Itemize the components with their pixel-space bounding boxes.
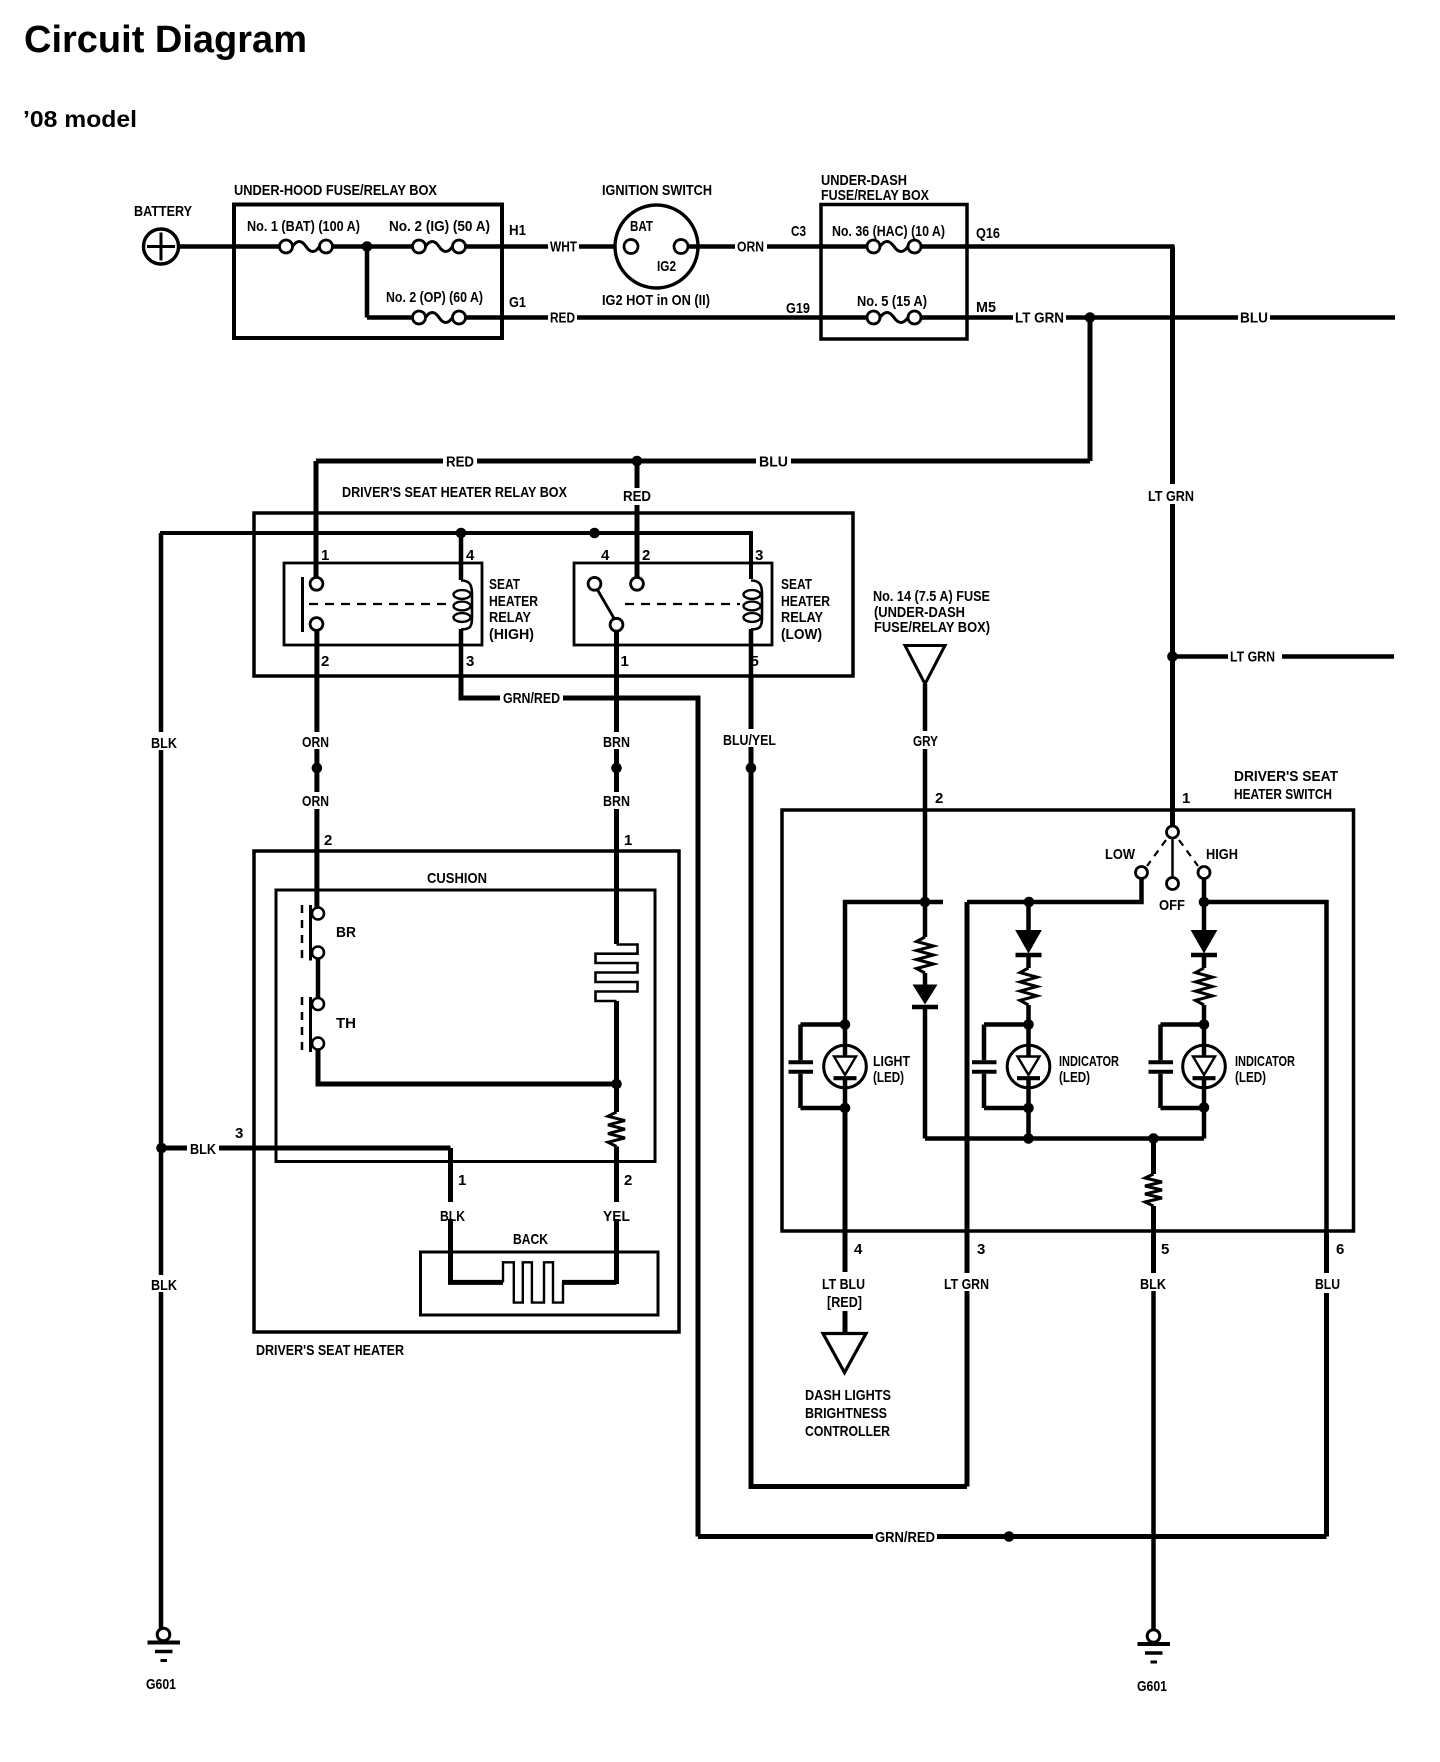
- wire ORN from relay HIGH pin 2: [302, 631, 332, 908]
- wire light rail: [845, 902, 943, 1025]
- svg-text:(HIGH): (HIGH): [489, 626, 534, 643]
- terminal label Q16: [976, 225, 1000, 242]
- svg-text:BRN: BRN: [603, 734, 630, 751]
- fuse No.5 (15 A): [821, 293, 967, 324]
- svg-text:LT BLU: LT BLU: [822, 1276, 865, 1293]
- svg-text:’08 model: ’08 model: [23, 106, 137, 132]
- ground G601 right: [1137, 1630, 1170, 1695]
- wire LT GRN horizontal branch: [1177, 649, 1394, 666]
- svg-text:INDICATOR: INDICATOR: [1235, 1053, 1295, 1070]
- svg-text:G601: G601: [146, 1676, 176, 1693]
- svg-text:2: 2: [642, 547, 650, 564]
- terminal label H1: [509, 222, 526, 239]
- svg-text:BLK: BLK: [190, 1141, 216, 1158]
- svg-text:2: 2: [321, 653, 329, 670]
- LED light circuit: [789, 1025, 911, 1109]
- wire IG2 ORN to under-dash C3: [688, 239, 821, 256]
- svg-text:OFF: OFF: [1159, 897, 1185, 914]
- wire BLK pin 3 to back heater: [162, 1125, 504, 1282]
- svg-text:1: 1: [1182, 790, 1190, 807]
- svg-text:1: 1: [321, 547, 329, 564]
- svg-text:G1: G1: [509, 294, 526, 311]
- fuse No.2 (OP) (60 A): [386, 289, 483, 324]
- connector node BRN: [611, 763, 622, 774]
- wire RED G1 to under-dash G19: [550, 292, 821, 327]
- svg-text:No. 14 (7.5 A) FUSE: No. 14 (7.5 A) FUSE: [873, 588, 990, 605]
- resistor indicator1: [1020, 968, 1037, 1025]
- svg-text:M5: M5: [976, 299, 996, 316]
- svg-text:DASH LIGHTS: DASH LIGHTS: [805, 1387, 891, 1404]
- off-page arrow dash lights brightness controller: [805, 1334, 891, 1441]
- svg-text:CUSHION: CUSHION: [427, 870, 487, 887]
- junction node ind1 top: [1023, 1019, 1034, 1030]
- svg-text:GRN/RED: GRN/RED: [875, 1529, 935, 1546]
- wire RED / BLU feed to relay box: [316, 454, 1090, 471]
- junction node under-hood: [362, 241, 373, 252]
- wire GRY to switch pin 2: [913, 684, 943, 902]
- junction node indicator1 top: [1024, 897, 1035, 908]
- svg-text:LT GRN: LT GRN: [1015, 310, 1064, 327]
- svg-text:HIGH: HIGH: [1206, 846, 1238, 863]
- svg-text:(LOW): (LOW): [781, 626, 822, 643]
- svg-text:No. 2 (OP) (60 A): No. 2 (OP) (60 A): [386, 289, 483, 306]
- junction node ind2 bottom: [1199, 1102, 1210, 1113]
- wire GRN/RED from relay HIGH pin 3: [461, 676, 698, 1537]
- svg-text:3: 3: [755, 547, 763, 564]
- wire BRN from relay LOW pin 1: [603, 631, 632, 944]
- branch wire to fuse No.2 (OP): [367, 247, 413, 318]
- resistor to pin 5: [1145, 1139, 1162, 1274]
- driver's seat heater relay box: [254, 484, 853, 676]
- svg-text:BACK: BACK: [513, 1231, 548, 1248]
- driver's seat heater switch box: [782, 768, 1354, 1231]
- terminal label C3: [791, 223, 806, 240]
- relay seat heater relay HIGH: [284, 533, 538, 676]
- LED indicator1 circuit: [972, 1025, 1119, 1139]
- junction node LT GRN branch: [1167, 651, 1178, 662]
- svg-text:DRIVER'S SEAT HEATER: DRIVER'S SEAT HEATER: [256, 1342, 404, 1359]
- junction node ind2 top: [1199, 1019, 1210, 1030]
- svg-text:BRN: BRN: [603, 793, 630, 810]
- fuse No.2 (IG) (50 A): [389, 218, 490, 253]
- battery BATTERY: [134, 203, 192, 264]
- svg-text:4: 4: [854, 1241, 863, 1258]
- svg-text:CONTROLLER: CONTROLLER: [805, 1423, 890, 1440]
- svg-text:BLU: BLU: [759, 454, 788, 471]
- svg-text:TH: TH: [336, 1015, 356, 1032]
- svg-text:[RED]: [RED]: [827, 1294, 862, 1311]
- junction node GRY light: [920, 897, 931, 908]
- heater element back: [503, 1262, 617, 1302]
- junction node cushion: [611, 1079, 622, 1090]
- svg-text:RED: RED: [550, 310, 575, 327]
- under-dash fuse/relay box: [821, 172, 967, 339]
- svg-text:IGNITION SWITCH: IGNITION SWITCH: [602, 182, 712, 199]
- junction node BLK pin3 branch: [156, 1143, 167, 1154]
- svg-text:ORN: ORN: [302, 793, 329, 810]
- wire HIGH contact rail: [1204, 879, 1327, 1232]
- svg-text:BLK: BLK: [1140, 1276, 1166, 1293]
- svg-text:BLU: BLU: [1240, 310, 1268, 327]
- svg-text:5: 5: [751, 653, 759, 670]
- svg-text:4: 4: [466, 547, 475, 564]
- svg-text:Q16: Q16: [976, 225, 1000, 242]
- diode dimmer: [912, 985, 938, 1139]
- svg-text:DRIVER'S SEAT: DRIVER'S SEAT: [1234, 768, 1338, 785]
- svg-text:BAT: BAT: [630, 218, 653, 235]
- svg-text:(LED): (LED): [1235, 1069, 1266, 1086]
- svg-text:Circuit Diagram: Circuit Diagram: [24, 19, 307, 61]
- svg-text:BLU/YEL: BLU/YEL: [723, 732, 776, 749]
- svg-text:RELAY: RELAY: [781, 609, 823, 626]
- svg-text:3: 3: [235, 1125, 243, 1142]
- svg-text:GRN/RED: GRN/RED: [503, 690, 560, 707]
- connector TH thermal contacts: [302, 959, 356, 1053]
- back heater box: [421, 1231, 659, 1315]
- svg-text:No. 2 (IG) (50 A): No. 2 (IG) (50 A): [389, 218, 490, 235]
- junction node rail indicator1: [1023, 1133, 1034, 1144]
- wire pin 3 LT GRN down: [941, 902, 992, 1487]
- wire LOW contact rail: [967, 879, 1142, 903]
- junction node GRN/RED: [1004, 1531, 1015, 1542]
- wire LT BLU [RED] pin 4 to controller: [822, 1108, 865, 1334]
- svg-text:No. 1 (BAT) (100 A): No. 1 (BAT) (100 A): [247, 218, 360, 235]
- svg-text:G601: G601: [1137, 1678, 1167, 1695]
- svg-text:No. 5 (15 A): No. 5 (15 A): [857, 293, 927, 310]
- svg-text:H1: H1: [509, 222, 526, 239]
- svg-text:RED: RED: [623, 488, 651, 505]
- wire BLK ground line left: [151, 533, 177, 1628]
- junction node rail pin4 LOW: [589, 528, 600, 539]
- svg-text:SEAT: SEAT: [781, 576, 812, 593]
- subtitle 08 model: [23, 106, 137, 132]
- switch contacts LOW OFF HIGH: [1105, 826, 1238, 914]
- svg-text:FUSE/RELAY BOX): FUSE/RELAY BOX): [874, 619, 990, 636]
- resistor GRY dimmer: [917, 902, 934, 985]
- svg-text:FUSE/RELAY BOX: FUSE/RELAY BOX: [821, 187, 929, 204]
- svg-text:4: 4: [601, 547, 610, 564]
- ground G601 left: [146, 1628, 180, 1693]
- diode indicator1: [1016, 902, 1042, 968]
- fuse No.14 (7.5 A) off-page triangle: [873, 588, 990, 684]
- svg-text:UNDER-HOOD FUSE/RELAY BOX: UNDER-HOOD FUSE/RELAY BOX: [234, 182, 437, 199]
- wire M5 LT GRN / BLU to right: [967, 310, 1395, 327]
- cushion box: [276, 870, 655, 1162]
- relay seat heater relay LOW: [574, 547, 830, 676]
- svg-text:IG2: IG2: [657, 258, 676, 275]
- ignition switch: [602, 182, 712, 288]
- svg-text:BATTERY: BATTERY: [134, 203, 192, 220]
- wire TH to thermostat junction: [318, 1050, 614, 1085]
- svg-text:LT GRN: LT GRN: [1148, 488, 1194, 505]
- fuse No.1 (BAT) (100 A): [247, 218, 360, 253]
- junction node RED branch: [632, 456, 643, 467]
- svg-text:BLU: BLU: [1315, 1276, 1340, 1293]
- wire fuse1 to fuse2: [333, 244, 413, 249]
- svg-text:LT GRN: LT GRN: [1230, 649, 1275, 666]
- svg-text:LIGHT: LIGHT: [873, 1053, 910, 1070]
- connector BR thermal contacts: [302, 905, 356, 961]
- connector node BLU/YEL: [746, 763, 757, 774]
- resistor indicator2: [1196, 968, 1213, 1025]
- thermostat resistor cushion: [608, 1084, 625, 1147]
- svg-text:5: 5: [1161, 1241, 1169, 1258]
- svg-text:LOW: LOW: [1105, 846, 1136, 863]
- wire BLU branch down to relay feed: [1088, 318, 1093, 462]
- svg-text:3: 3: [977, 1241, 985, 1258]
- svg-text:BLK: BLK: [151, 735, 177, 752]
- junction node rail resistor5: [1148, 1133, 1159, 1144]
- svg-text:IG2 HOT in ON (II): IG2 HOT in ON (II): [602, 292, 710, 309]
- wire GRN/RED bottom to pin 6: [698, 1231, 1344, 1546]
- svg-text:DRIVER'S SEAT HEATER RELAY BOX: DRIVER'S SEAT HEATER RELAY BOX: [342, 484, 567, 501]
- svg-text:2: 2: [324, 832, 332, 849]
- svg-text:1: 1: [621, 653, 629, 670]
- svg-text:BR: BR: [336, 924, 356, 941]
- wire BLU/YEL from relay LOW pin 5: [723, 676, 967, 1487]
- svg-text:2: 2: [935, 790, 943, 807]
- wire BLK pin 5 to ground: [1137, 1241, 1169, 1629]
- terminal label G19: [786, 300, 810, 317]
- svg-text:ORN: ORN: [737, 239, 764, 256]
- svg-text:GRY: GRY: [913, 733, 938, 750]
- svg-text:HEATER: HEATER: [781, 593, 830, 610]
- under-hood fuse/relay box: [234, 182, 502, 338]
- svg-text:(LED): (LED): [1059, 1069, 1090, 1086]
- svg-text:INDICATOR: INDICATOR: [1059, 1053, 1119, 1070]
- wire Q16 to right vertical: [967, 244, 1175, 249]
- svg-text:BRIGHTNESS: BRIGHTNESS: [805, 1405, 887, 1422]
- wire down to relay HIGH pin 1: [314, 461, 319, 578]
- LED indicator2 circuit: [1149, 1025, 1296, 1139]
- fuse No.36 (HAC) (10 A): [821, 223, 967, 253]
- svg-text:HEATER SWITCH: HEATER SWITCH: [1234, 786, 1332, 803]
- junction node light top: [840, 1019, 851, 1030]
- svg-text:No. 36 (HAC) (10 A): No. 36 (HAC) (10 A): [832, 223, 945, 240]
- svg-text:(LED): (LED): [873, 1069, 904, 1086]
- terminal label G1: [509, 294, 526, 311]
- svg-text:3: 3: [466, 653, 474, 670]
- heater element cushion: [596, 945, 638, 1085]
- svg-text:BLK: BLK: [151, 1277, 177, 1294]
- svg-text:SEAT: SEAT: [489, 576, 520, 593]
- svg-text:2: 2: [624, 1172, 632, 1189]
- wire bottom rail of switch: [925, 1136, 1204, 1141]
- wire battery to under-hood box: [179, 244, 281, 249]
- wire fuse OP to G1: [466, 315, 549, 320]
- junction node rail pin4 HIGH: [456, 528, 467, 539]
- svg-text:C3: C3: [791, 223, 806, 240]
- junction node HIGH rail: [1199, 897, 1210, 908]
- wire RED down to relay LOW pin 2: [620, 461, 654, 578]
- driver's seat heater box: [254, 851, 679, 1359]
- svg-text:1: 1: [458, 1172, 466, 1189]
- svg-text:RELAY: RELAY: [489, 609, 531, 626]
- svg-text:RED: RED: [446, 454, 474, 471]
- wire LT GRN vertical to heater switch pin 1: [1145, 247, 1197, 827]
- svg-text:1: 1: [624, 832, 632, 849]
- svg-text:HEATER: HEATER: [489, 593, 538, 610]
- svg-text:6: 6: [1336, 1241, 1344, 1258]
- wire fuse2 to H1: [466, 244, 549, 249]
- title: [24, 19, 307, 61]
- junction node ind1 bottom: [1023, 1103, 1034, 1114]
- wire ground rail to relay coils: [160, 533, 751, 579]
- svg-text:LT GRN: LT GRN: [944, 1276, 989, 1293]
- wire YEL to back heater: [603, 1147, 632, 1285]
- connector node ORN: [312, 763, 323, 774]
- svg-text:WHT: WHT: [550, 239, 577, 256]
- svg-text:G19: G19: [786, 300, 810, 317]
- junction node M5 branch: [1085, 312, 1096, 323]
- terminal label M5: [976, 299, 996, 316]
- wire WHT to ignition switch: [550, 239, 624, 256]
- junction node light bottom: [840, 1103, 851, 1114]
- svg-text:ORN: ORN: [302, 734, 329, 751]
- diode indicator2: [1191, 902, 1217, 968]
